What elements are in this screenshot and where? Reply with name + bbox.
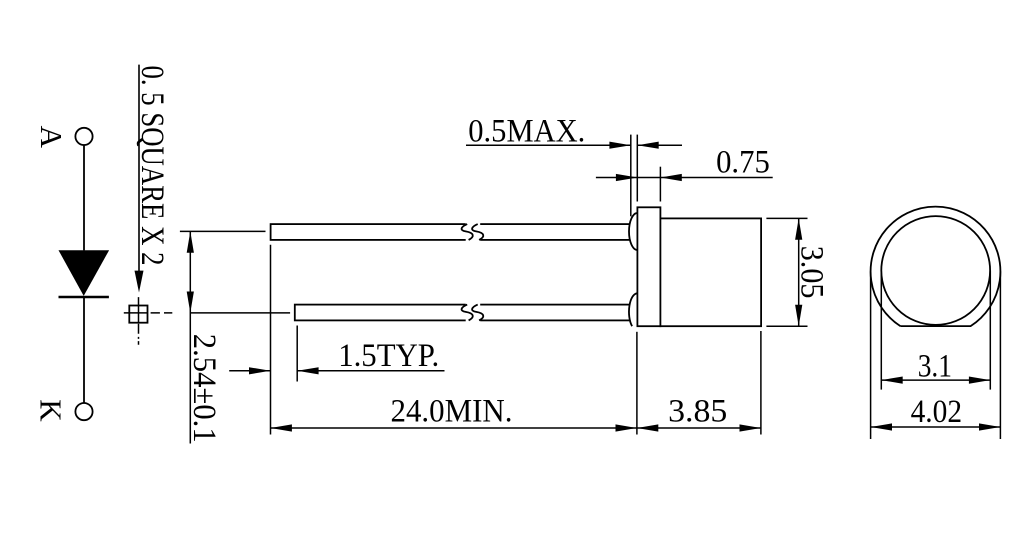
front view outer circle with flat [871,207,1001,326]
svg-text:2.54±0.1: 2.54±0.1 [186,334,222,443]
svg-text:3.1: 3.1 [918,348,952,384]
dimension 2.54±0.1 [180,231,290,443]
right arrow + underline [297,370,444,372]
svg-text:0.75: 0.75 [716,145,770,181]
leader line [138,65,140,272]
ext lines [870,272,872,440]
svg-text:K: K [34,399,69,422]
anode terminal circle [75,128,92,145]
dimension 0.75 [596,145,773,202]
ext line flange right [659,167,661,202]
ext line body right [760,331,762,435]
dim line [871,426,1001,428]
wire cathode bar to terminal [83,297,85,403]
bottom lead centerline extension (solid part) [190,312,290,314]
dimension 0.5MAX. [466,114,682,217]
dim line [271,427,761,429]
dimension 3.05 [766,218,829,326]
diode triangle [59,250,110,296]
lead square cross-section [124,297,173,345]
left arrow [596,177,661,179]
break symbol top lead [462,222,484,243]
vertical centerline [138,297,140,345]
ext line top [766,217,807,219]
arrow up [187,231,194,252]
ext line bottom lead start [296,326,298,382]
ext line flange left [636,332,638,435]
svg-text:3.85: 3.85 [668,394,727,430]
cathode bar [59,296,109,298]
LED body [660,218,761,326]
dome boss top lead [629,213,637,250]
break symbol bottom lead [462,302,484,323]
ext line flange left [636,135,638,202]
svg-text:1.5TYP.: 1.5TYP. [338,338,439,374]
cathode terminal circle [75,403,92,420]
dimension 1.5TYP. [229,326,444,382]
lead cross-section label "0. 5 SQUARE X 2" with leader [134,65,170,293]
wire anode to triangle [83,145,85,250]
right arrow [637,144,682,146]
dim line [881,379,990,381]
front view inner circle [881,216,990,325]
ext line lead left end [270,245,272,435]
svg-text:A: A [34,126,69,149]
bottom lead (cathode) [295,305,636,321]
diode D1 [34,126,110,423]
dimension 24.0MIN. and 3.85 [271,245,761,435]
dome boss bottom lead [629,293,637,326]
svg-text:3.05: 3.05 [794,246,830,299]
dimension line vertical [189,231,191,443]
right arrow + underline [660,177,772,179]
underline + left arrow tail [466,144,631,146]
LED flange [637,207,660,326]
leader arrowhead [135,271,144,293]
dim line [798,218,800,326]
ext line dome tip [630,135,632,217]
ext line bottom [766,325,807,327]
svg-text:24.0MIN.: 24.0MIN. [391,394,513,430]
dimension 4.02 [871,272,1001,440]
left arrow (pointing right) [229,370,270,372]
ext lines [880,271,882,390]
arrow down [187,292,194,313]
horizontal centerline [124,312,173,314]
dimension 3.1 [881,271,990,390]
top lead (anode) [271,224,636,240]
svg-text:0.5MAX.: 0.5MAX. [468,114,585,150]
svg-text:4.02: 4.02 [911,394,963,430]
top lead centerline extension [180,230,266,232]
